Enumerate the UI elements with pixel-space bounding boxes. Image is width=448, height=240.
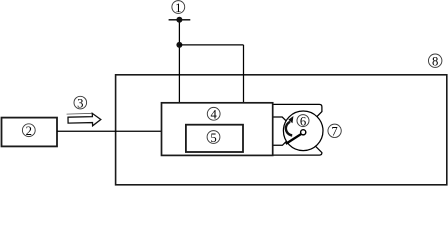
arrow top accent line bbox=[67, 112, 93, 115]
svg-text:5: 5 bbox=[210, 131, 216, 145]
label 6 bbox=[297, 114, 309, 128]
svg-text:2: 2 bbox=[26, 124, 32, 138]
roller bracket 7 bbox=[272, 104, 322, 155]
wire 2 to 4 bbox=[57, 130, 162, 132]
box 2 bbox=[2, 118, 58, 147]
wire branch horizontal bbox=[179, 44, 243, 46]
label 8 bbox=[429, 54, 442, 69]
svg-text:4: 4 bbox=[211, 108, 218, 122]
enclosure box 8 bbox=[116, 75, 447, 185]
label 1 bbox=[172, 1, 185, 15]
svg-text:1: 1 bbox=[175, 1, 181, 15]
wire branch down bbox=[243, 45, 245, 103]
crank pointer bbox=[286, 133, 303, 144]
box 4 bbox=[162, 103, 273, 156]
svg-text:3: 3 bbox=[77, 96, 83, 110]
terminal dot bbox=[176, 17, 182, 23]
shaft circle bbox=[301, 130, 306, 135]
wire down from terminal bbox=[178, 20, 180, 103]
rotation arrow bbox=[286, 116, 294, 136]
label 5 bbox=[207, 131, 220, 145]
roller disc 6 bbox=[283, 111, 323, 151]
label 3 bbox=[74, 96, 87, 110]
svg-text:8: 8 bbox=[432, 55, 438, 69]
svg-text:7: 7 bbox=[331, 125, 337, 139]
label 4 bbox=[207, 107, 220, 121]
junction dot bbox=[176, 42, 182, 48]
svg-text:6: 6 bbox=[300, 114, 306, 128]
arrow 3 bbox=[68, 113, 101, 125]
label 2 bbox=[22, 124, 35, 138]
box 5 bbox=[186, 125, 243, 152]
terminal line 1 bbox=[169, 19, 191, 21]
label 7 bbox=[328, 124, 341, 138]
